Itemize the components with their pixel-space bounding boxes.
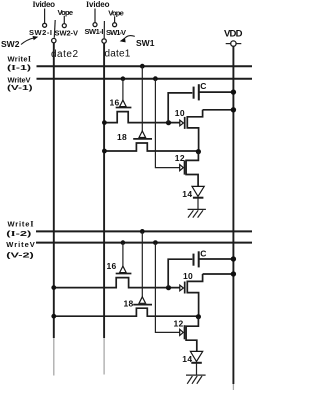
wire Q10b drain to VDD xyxy=(203,273,234,275)
wire diode to ground xyxy=(197,198,199,210)
svg-text:14: 14 xyxy=(182,354,192,364)
switch SW2 pole circle xyxy=(52,38,56,42)
svg-text:SW2-I: SW2-I xyxy=(29,28,52,37)
wire Q10 drain to VDD xyxy=(203,109,234,111)
transistor Q10b gate contact triangle xyxy=(180,285,184,291)
svg-text:WriteV: WriteV xyxy=(6,240,35,249)
svg-text:WriteI: WriteI xyxy=(8,218,35,228)
switch SW1 pole circle xyxy=(102,39,106,43)
transistor Q18b gate bar xyxy=(133,304,152,306)
wire WriteI-1 rail xyxy=(37,65,253,67)
junction dot WriteV-1 / gate 12 xyxy=(153,76,158,81)
ground symbol (block 1) xyxy=(188,208,206,210)
wire date2 vertical line xyxy=(53,43,55,338)
junction dot date2 / Q16b source xyxy=(51,285,56,290)
svg-text:12: 12 xyxy=(174,318,184,328)
transistor Q16b gate contact triangle xyxy=(120,266,127,273)
transistor Q12b gate bar xyxy=(184,325,186,339)
diode D14b cathode bar xyxy=(191,362,202,364)
capacitor C2 left plate xyxy=(193,254,195,266)
power VDD terminal xyxy=(226,43,242,45)
svg-text:(V-1): (V-1) xyxy=(7,83,33,92)
svg-text:14: 14 xyxy=(182,189,192,199)
diode D14 cathode bar xyxy=(193,197,204,199)
transistor Q18b channel xyxy=(54,308,199,316)
svg-text:date1: date1 xyxy=(105,48,131,59)
transistor Q16 gate contact triangle xyxy=(120,100,127,107)
svg-text:16: 16 xyxy=(110,98,120,108)
svg-text:Ivideo: Ivideo xyxy=(86,0,110,9)
svg-text:SW1-I: SW1-I xyxy=(85,27,104,36)
junction dot WriteV-1 / gate 16 xyxy=(121,76,126,81)
svg-text:Vope: Vope xyxy=(108,9,124,18)
wire date1 vertical line xyxy=(103,43,105,338)
wire WriteV-2 rail xyxy=(36,242,252,244)
arrow from SW1 label xyxy=(125,36,135,38)
junction dot WriteV-2 / gate 16b xyxy=(121,240,126,245)
svg-text:C: C xyxy=(200,81,206,91)
junction dot date2 / Q18b source xyxy=(51,314,56,319)
ground symbol (block 2) xyxy=(186,374,206,376)
svg-text:10: 10 xyxy=(175,108,185,118)
diode D14 triangle xyxy=(192,186,204,196)
wire Vope-1 lead xyxy=(63,16,65,24)
junction dot Q10b / VDD xyxy=(231,271,236,276)
wire capacitor b to VDD xyxy=(199,258,234,260)
svg-text:(I-2): (I-2) xyxy=(6,229,32,238)
transistor Q18b gate contact triangle xyxy=(139,297,146,304)
junction dot WriteI-1 / gate 18 xyxy=(140,64,145,69)
junction dot storage node b xyxy=(166,285,171,290)
junction dot cap b / VDD xyxy=(231,256,236,261)
transistor Q12b channel xyxy=(186,317,198,352)
svg-text:SW1-V: SW1-V xyxy=(106,28,126,37)
terminal SW2-V contact circle xyxy=(62,24,66,28)
wire Ivideo-2 lead xyxy=(94,9,96,23)
wire gate lead of transistor 16b xyxy=(122,243,124,267)
junction dot cap / VDD xyxy=(231,89,236,94)
junction dot date1 / Q16 source xyxy=(102,120,107,125)
terminal SW2-I contact circle xyxy=(43,23,47,27)
wire WriteI-2 rail xyxy=(36,230,252,232)
wire Vope-2 lead xyxy=(114,16,116,22)
wire storage node to capacitor xyxy=(168,93,192,123)
wire gate lead of transistor 16 xyxy=(122,79,124,101)
switch SW1 blade xyxy=(103,21,105,38)
wire capacitor to VDD xyxy=(199,91,234,93)
wire storage node b to capacitor xyxy=(168,259,192,288)
svg-text:12: 12 xyxy=(175,153,185,163)
junction dot storage node xyxy=(166,120,171,125)
arrow from SW2 label xyxy=(21,38,34,45)
diode D14b triangle xyxy=(190,351,202,361)
wire gate lead of transistor 12b xyxy=(155,243,179,333)
capacitor C2 right plate xyxy=(198,251,200,267)
transistor Q10 channel xyxy=(187,110,202,152)
wire diode b to ground xyxy=(196,363,198,375)
transistor Q12 gate bar xyxy=(184,161,186,175)
wire gate lead of transistor 18b xyxy=(141,231,143,297)
junction dot Q10 / VDD xyxy=(231,107,236,112)
transistor Q12b gate contact triangle xyxy=(180,329,184,335)
svg-text:(V-2): (V-2) xyxy=(6,250,34,259)
svg-text:(I-1): (I-1) xyxy=(7,63,32,72)
wire WriteV-1 rail xyxy=(37,78,253,80)
svg-text:C: C xyxy=(200,249,206,259)
junction dot WriteV-2 / gate 12b xyxy=(153,240,158,245)
switch SW2 blade xyxy=(53,20,56,38)
svg-text:date2: date2 xyxy=(51,49,79,60)
transistor Q18 gate contact triangle xyxy=(139,131,146,138)
svg-text:VDD: VDD xyxy=(224,29,243,40)
wire gate lead of transistor 12 xyxy=(155,79,179,168)
transistor Q16 channel xyxy=(104,112,179,123)
junction dot date1 / Q18 source xyxy=(102,149,107,154)
junction dot Q10b/Q12b node xyxy=(196,314,201,319)
terminal SW1-V contact circle xyxy=(113,23,117,27)
junction dot Q10/Q12 node xyxy=(196,149,201,154)
terminal SW1-I contact circle xyxy=(93,23,97,27)
wire VDD vertical rail xyxy=(232,46,234,384)
svg-text:SW1: SW1 xyxy=(136,38,155,48)
svg-text:10: 10 xyxy=(183,271,193,281)
transistor Q10b gate bar xyxy=(184,282,186,294)
transistor Q16 gate bar xyxy=(116,107,132,109)
transistor Q12 channel xyxy=(186,152,198,187)
capacitor C1 left plate xyxy=(193,87,195,99)
transistor Q10b channel xyxy=(187,274,202,317)
transistor Q16b gate bar xyxy=(116,273,132,275)
transistor Q10 gate bar xyxy=(184,117,186,129)
wire Ivideo-1 lead xyxy=(44,9,46,24)
svg-text:Ivideo: Ivideo xyxy=(33,0,56,9)
transistor Q16b channel xyxy=(54,278,180,288)
svg-text:Vope: Vope xyxy=(58,8,74,17)
capacitor C1 right plate xyxy=(198,84,200,100)
svg-text:SW2-V: SW2-V xyxy=(55,29,79,38)
transistor Q10 gate contact triangle xyxy=(180,120,184,126)
junction dot WriteI-2 / gate 18b xyxy=(140,229,145,234)
wire gate lead of transistor 18 xyxy=(141,66,143,131)
svg-text:SW2: SW2 xyxy=(1,39,20,49)
transistor Q18 gate bar xyxy=(133,138,152,140)
svg-text:18: 18 xyxy=(124,298,134,308)
transistor Q12 gate contact triangle xyxy=(180,165,184,171)
svg-text:18: 18 xyxy=(117,132,127,142)
svg-text:16: 16 xyxy=(107,261,117,271)
transistor Q18 channel xyxy=(104,143,198,151)
